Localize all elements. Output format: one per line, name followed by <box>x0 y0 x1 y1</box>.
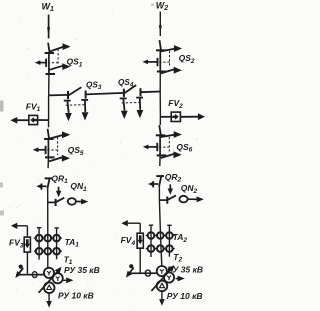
svg-text:РУ 10 кВ: РУ 10 кВ <box>58 291 94 301</box>
svg-text:РУ 10 кВ: РУ 10 кВ <box>167 291 203 301</box>
svg-text:РУ 35 кВ: РУ 35 кВ <box>167 264 203 274</box>
svg-text:РУ 35 кВ: РУ 35 кВ <box>64 265 100 275</box>
